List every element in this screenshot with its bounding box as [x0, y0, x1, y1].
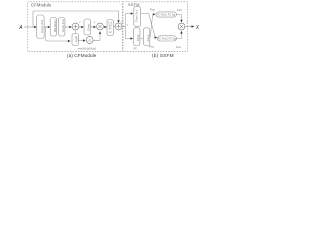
wire GAP to sigma: [79, 39, 86, 41]
node A input label: [18, 25, 23, 31]
formula label: [78, 46, 97, 50]
wire add1 down to GAP block: [75, 30, 77, 34]
svg-text:Fsq: Fsq: [150, 8, 155, 12]
svg-text:Conv: Conv: [87, 23, 91, 30]
svg-text:GAP: GAP: [75, 36, 79, 42]
title CFModule: [31, 3, 52, 8]
label sup right top: [177, 8, 183, 12]
dashed box CFModule (a): [28, 2, 123, 52]
wire pill top to mult2: [177, 15, 183, 23]
wire input A to block1: [24, 26, 37, 29]
svg-text:A: A: [18, 25, 23, 31]
svg-text:CFModule: CFModule: [31, 3, 52, 8]
wire input split vertical: [125, 14, 127, 39]
svg-text:s=σ(W₂δ(W₁z)): s=σ(W₂δ(W₁z)): [78, 46, 97, 50]
wire drop to lower branch: [45, 27, 70, 42]
wire mult1 to block5: [103, 26, 107, 29]
label z sup: [78, 21, 81, 24]
wire to bottom conv boxes: [126, 37, 134, 39]
pill FC bottom: [158, 36, 177, 41]
svg-text:Conv 3×3: Conv 3×3: [61, 19, 65, 32]
block BN-ReLU stack: [107, 20, 114, 36]
svg-text:(a) CFModule: (a) CFModule: [67, 53, 97, 59]
wire block1 to block2: [44, 26, 50, 29]
wire block5 to add2: [114, 26, 116, 28]
block Conv1: [37, 15, 45, 39]
svg-text:Conv 1×1: Conv 1×1: [135, 9, 139, 21]
label below pill right: [176, 45, 182, 49]
svg-text:Fsq: Fsq: [149, 44, 154, 48]
wire skip connection top: [33, 11, 120, 27]
node X output label: [195, 25, 200, 31]
block GAP lower: [72, 34, 79, 46]
wire to top GAP box: [126, 12, 134, 14]
svg-text:(b) SSFM: (b) SSFM: [152, 53, 174, 59]
node sigma: [86, 37, 93, 44]
dashed box SSFM (b): [123, 2, 188, 52]
svg-text:X: X: [195, 25, 200, 31]
label s sup: [94, 21, 96, 24]
node add1 (circle +): [72, 23, 79, 30]
svg-text:Conv: Conv: [136, 34, 140, 41]
block GAP top: [134, 7, 141, 27]
svg-text:FC ReLU FC Sig: FC ReLU FC Sig: [157, 14, 176, 17]
svg-text:Fex: Fex: [177, 8, 183, 12]
wire add2 to SSFM input: [122, 26, 126, 28]
wire pill bottom to mult2: [177, 31, 183, 39]
svg-text:Conv: Conv: [146, 34, 150, 41]
title SSFM: [128, 3, 140, 7]
node add2 (circle +): [115, 23, 122, 30]
label F sup: [121, 20, 123, 24]
block ConvB1: [134, 28, 140, 46]
block Conv4: [84, 19, 91, 35]
svg-text:Fex: Fex: [176, 45, 182, 49]
block ConvB2: [143, 28, 149, 46]
wire ConvB1 to ConvB2: [140, 38, 144, 40]
caption (b) SSFM: [152, 53, 174, 59]
wire ConvB2 to upper pill (diagonal up): [150, 13, 155, 37]
wire GAP top to lower pill (diagonal down): [141, 14, 158, 39]
svg-text:LU: LU: [109, 32, 112, 34]
pill FC top: [156, 12, 177, 17]
label x sup input: [126, 24, 129, 27]
wire block3 to add node: [65, 26, 72, 29]
label sup output: [186, 20, 187, 24]
svg-text:BN ReLU: BN ReLU: [53, 20, 57, 32]
label below crossing: [149, 44, 154, 48]
svg-text:glc: glc: [134, 46, 138, 50]
caption (a) CFModule: [67, 53, 97, 59]
label below ConvB1: [134, 46, 138, 50]
svg-text:BN: BN: [109, 26, 113, 28]
block Conv2: [50, 18, 57, 37]
wire block4 to mult: [91, 26, 97, 29]
node mult1 (circle x): [97, 23, 104, 30]
node mult2 (circle x): [178, 23, 185, 30]
label Fsq top: [150, 8, 155, 12]
svg-text:Conv 3×3: Conv 3×3: [40, 19, 44, 32]
wire add1 to block4: [79, 26, 84, 29]
wire mult2 to X output: [185, 25, 195, 28]
block Conv3: [59, 18, 66, 37]
wire sigma up to mult: [93, 31, 101, 40]
svg-text:FC ReLU FC Sig: FC ReLU FC Sig: [158, 37, 177, 40]
